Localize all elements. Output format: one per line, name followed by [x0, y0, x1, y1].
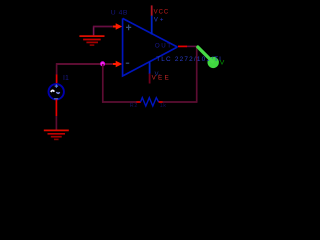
- power VCC symbol bar: [151, 5, 153, 16]
- wire source riser: [56, 63, 58, 75]
- wire noninverting input net: [93, 26, 113, 28]
- svg-text:VEE: VEE: [152, 74, 171, 81]
- opamp plus mark: [126, 25, 131, 31]
- wire resistor left pin: [137, 101, 141, 103]
- wire feedback right vertical: [196, 46, 198, 102]
- probe stick: [198, 47, 213, 62]
- wire source bottom pin: [55, 99, 57, 116]
- power VEE symbol bar: [149, 74, 151, 84]
- resistor R2: [141, 98, 159, 106]
- wire opamp output pin: [178, 45, 187, 47]
- svg-text:I1: I1: [63, 75, 69, 82]
- wire feedback bottom left: [102, 101, 137, 103]
- wire source top pin: [56, 75, 58, 85]
- node junction dot: [100, 61, 105, 66]
- svg-text:V+: V+: [154, 17, 166, 23]
- wire feedback bottom right: [163, 101, 197, 103]
- svg-text:R2: R2: [130, 103, 138, 109]
- wire feedback left vertical: [102, 64, 104, 103]
- probe head: [208, 57, 219, 68]
- svg-text:1k: 1k: [160, 103, 167, 109]
- ground GND1: [79, 36, 104, 45]
- ground GND2: [44, 130, 69, 139]
- wire to ground2: [55, 116, 57, 130]
- svg-text:U 4B: U 4B: [111, 10, 128, 17]
- wire ground1 riser: [93, 27, 95, 37]
- wire V- pin stub: [149, 62, 151, 74]
- wire output net: [187, 45, 197, 47]
- pin arrow opamp + input: [113, 23, 122, 29]
- svg-text:V: V: [220, 60, 225, 67]
- op-amp U4B triangle: [123, 18, 178, 76]
- wire V+ pin stub: [151, 16, 153, 35]
- wire resistor right pin: [159, 101, 163, 103]
- svg-text:VCC: VCC: [154, 10, 170, 16]
- wire inverting input net horizontal: [56, 63, 113, 65]
- opamp minus mark: [126, 62, 129, 64]
- svg-text:OUT: OUT: [155, 42, 173, 49]
- pin arrow opamp - input: [113, 61, 122, 67]
- source I1: [49, 84, 64, 99]
